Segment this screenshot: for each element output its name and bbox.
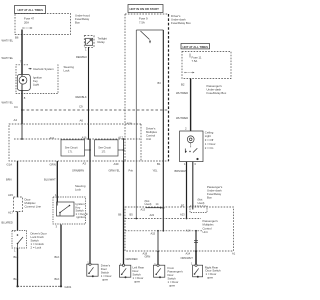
wire BLU/RED to lock knob switch bbox=[17, 212, 19, 231]
svg-text:ORN/BRN: ORN/BRN bbox=[72, 169, 84, 173]
svg-text:A12: A12 bbox=[50, 136, 55, 140]
svg-text:HOT IN ON OR START: HOT IN ON OR START bbox=[130, 7, 160, 11]
svg-text:A22: A22 bbox=[150, 213, 155, 217]
right rear door switch bbox=[193, 265, 203, 277]
see circuit box 2 bbox=[95, 140, 119, 156]
svg-text:2 = Lock: 2 = Lock bbox=[31, 246, 42, 250]
internal bus bbox=[14, 138, 140, 140]
wire A3 ORN/BRN to driver's door switch bbox=[89, 161, 91, 264]
wire BLK to ground bus bbox=[17, 248, 19, 286]
small passenger's under-dash fuse/relay box bbox=[190, 206, 207, 213]
svg-text:RED/BLK: RED/BLK bbox=[76, 95, 87, 99]
wire W0 BRN to door multiplex connect line bbox=[17, 161, 19, 197]
driver's under-dash fuse/relay box bbox=[125, 13, 169, 15]
svg-text:A6: A6 bbox=[80, 119, 84, 123]
node A13 stub (not used) bbox=[146, 207, 162, 209]
svg-text:B5: B5 bbox=[130, 213, 134, 217]
svg-text:17).: 17). bbox=[102, 149, 107, 153]
svg-text:WHT/YEL: WHT/YEL bbox=[2, 101, 14, 105]
svg-text:BLU/WHT: BLU/WHT bbox=[44, 178, 56, 182]
svg-text:ignition: ignition bbox=[77, 215, 86, 219]
driver's multiplex control unit box bbox=[9, 124, 169, 161]
svg-text:GRN/YEL: GRN/YEL bbox=[109, 169, 121, 173]
svg-text:HOT AT ALL TIMES: HOT AT ALL TIMES bbox=[183, 45, 209, 49]
svg-text:BLK: BLK bbox=[14, 255, 19, 259]
internal stubs bbox=[135, 218, 137, 220]
svg-text:WHT/YEL: WHT/YEL bbox=[2, 56, 14, 60]
see circuit box 1 bbox=[61, 140, 85, 156]
svg-text:GRN: GRN bbox=[145, 255, 151, 259]
svg-text:A17: A17 bbox=[118, 136, 123, 140]
wire key light to node C4 (WHT/YEL) bbox=[21, 90, 23, 124]
svg-text:See Circuit: See Circuit bbox=[98, 145, 111, 149]
svg-text:Used): Used) bbox=[198, 201, 205, 205]
svg-text:BRN: BRN bbox=[6, 178, 12, 182]
svg-text:Lock: Lock bbox=[75, 188, 82, 192]
power label HOT AT ALL TIMES (right) bbox=[181, 44, 210, 49]
wire W7 to right rear switch bbox=[195, 251, 197, 265]
svg-text:WHT/RED: WHT/RED bbox=[176, 91, 188, 95]
svg-text:WHT/RED: WHT/RED bbox=[176, 116, 188, 120]
wire twilight relay to A6 (RED/BLK) bbox=[88, 47, 90, 124]
wire BLK ignition switch to ground bbox=[60, 225, 62, 287]
svg-text:Connect Line: Connect Line bbox=[25, 205, 42, 209]
svg-text:BLU/RED: BLU/RED bbox=[2, 221, 13, 225]
ignition key switch bbox=[53, 197, 86, 224]
internal bus passenger unit bbox=[125, 230, 202, 232]
svg-text:A14: A14 bbox=[186, 229, 191, 233]
driver's door lock knob switch bbox=[12, 231, 27, 249]
svg-text:BLK: BLK bbox=[55, 277, 60, 281]
svg-text:BRN/WHT: BRN/WHT bbox=[175, 169, 188, 173]
ground bus G401 bbox=[18, 285, 62, 287]
svg-text:Lock: Lock bbox=[64, 69, 71, 73]
svg-text:A2N: A2N bbox=[127, 122, 132, 126]
svg-text:RED/BLK: RED/BLK bbox=[76, 55, 87, 59]
svg-text:2 = On: 2 = On bbox=[205, 146, 214, 150]
svg-text:Interlock System: Interlock System bbox=[33, 67, 54, 71]
svg-text:B6: B6 bbox=[118, 213, 122, 217]
driver's door switch bbox=[87, 264, 98, 276]
svg-text:B3: B3 bbox=[158, 81, 162, 85]
from passenger's door switch bbox=[154, 265, 165, 277]
passenger's multiplex control unit box bbox=[125, 207, 234, 251]
svg-text:Pnk: Pnk bbox=[129, 169, 134, 173]
svg-text:Box: Box bbox=[207, 196, 212, 200]
internal stubs bbox=[21, 124, 23, 139]
svg-text:Unit: Unit bbox=[203, 230, 208, 234]
twilight relay bbox=[84, 36, 94, 48]
svg-text:7.5A: 7.5A bbox=[139, 21, 145, 25]
svg-text:HOT AT ALL TIMES: HOT AT ALL TIMES bbox=[18, 8, 44, 12]
ignition key light bbox=[17, 74, 30, 90]
svg-text:G401: G401 bbox=[65, 285, 72, 289]
passenger's under-dash fuse/relay box (fuse 11) bbox=[182, 52, 231, 79]
svg-text:Fuse/Relay Box: Fuse/Relay Box bbox=[207, 91, 227, 95]
interlock system box bbox=[16, 65, 58, 94]
svg-text:A23: A23 bbox=[180, 213, 185, 217]
svg-text:A15: A15 bbox=[8, 193, 13, 197]
svg-text:Box: Box bbox=[75, 21, 80, 25]
svg-text:20A: 20A bbox=[24, 21, 29, 25]
svg-text:See Circuit: See Circuit bbox=[65, 145, 78, 149]
svg-text:Relay: Relay bbox=[98, 40, 106, 44]
power label HOT IN ON OR START bbox=[128, 5, 163, 13]
svg-text:A13: A13 bbox=[141, 207, 146, 211]
svg-text:A14: A14 bbox=[186, 252, 191, 256]
power label HOT AT ALL TIMES (top left) bbox=[15, 6, 46, 14]
wire ceiling pin 3 down (not used) bbox=[192, 162, 194, 210]
svg-text:C9: C9 bbox=[79, 105, 83, 109]
svg-text:GRN: GRN bbox=[50, 163, 56, 167]
svg-text:A15: A15 bbox=[151, 231, 156, 235]
svg-text:B1: B1 bbox=[157, 162, 161, 166]
svg-text:open: open bbox=[207, 276, 214, 280]
wire BRN/WHT ceiling pin 1 down bbox=[186, 162, 188, 219]
multiplex dashed wire across y=110 bbox=[22, 109, 169, 111]
wire fuse 11 to ceiling light (WHT/RED) bbox=[190, 79, 192, 132]
svg-text:C4: C4 bbox=[14, 105, 18, 109]
svg-text:B6: B6 bbox=[15, 36, 19, 40]
svg-text:Used): Used) bbox=[145, 202, 152, 206]
wire fuse 47 to interlock box (WHT/YEL) bbox=[21, 30, 23, 75]
svg-text:A16: A16 bbox=[82, 136, 87, 140]
svg-text:open: open bbox=[102, 278, 109, 282]
wire W4 to from-passenger switch bbox=[157, 252, 159, 266]
svg-text:YEL: YEL bbox=[153, 169, 158, 173]
door multiplex connect line bbox=[14, 197, 23, 212]
svg-text:A3: A3 bbox=[83, 162, 87, 166]
svg-text:A30: A30 bbox=[114, 162, 119, 166]
wire W2 PNK from fuse box bbox=[135, 30, 137, 219]
node junction on wire at y110 bbox=[21, 109, 23, 111]
svg-text:BLK: BLK bbox=[14, 277, 19, 281]
svg-text:open: open bbox=[134, 280, 141, 284]
svg-text:B2: B2 bbox=[181, 83, 185, 87]
under-hood fuse/relay box bbox=[15, 14, 71, 35]
bold dashed bus line x=163 bbox=[162, 30, 164, 231]
wire GRN from box to ignition key switch bbox=[56, 161, 58, 202]
ceiling light bbox=[180, 131, 203, 162]
svg-text:A4: A4 bbox=[14, 118, 18, 122]
svg-text:WHT/YEL: WHT/YEL bbox=[2, 39, 14, 43]
svg-text:17).: 17). bbox=[68, 149, 73, 153]
svg-text:open: open bbox=[169, 284, 176, 288]
svg-text:A17: A17 bbox=[8, 211, 13, 215]
svg-text:Unit: Unit bbox=[146, 137, 151, 141]
svg-text:BLK: BLK bbox=[55, 255, 60, 259]
svg-text:Fuse/Relay Box: Fuse/Relay Box bbox=[171, 21, 191, 25]
svg-text:GRN/RED: GRN/RED bbox=[126, 257, 138, 261]
wire W1 GRN/YEL to left rear door switch bbox=[123, 161, 125, 265]
svg-text:Light: Light bbox=[33, 83, 39, 87]
svg-text:A1: A1 bbox=[232, 252, 236, 256]
svg-text:G1A: G1A bbox=[7, 163, 13, 167]
left rear door switch bbox=[120, 265, 131, 277]
svg-text:7.5A: 7.5A bbox=[192, 59, 198, 63]
svg-text:ORN/WHT: ORN/WHT bbox=[181, 256, 194, 260]
